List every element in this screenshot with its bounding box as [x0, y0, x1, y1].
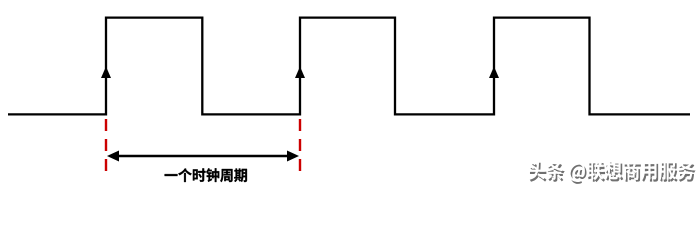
red dashed marker at first rising edge: [105, 119, 107, 172]
clock waveform trace: [8, 18, 690, 115]
rising-edge arrowhead 2: [295, 67, 305, 79]
rising-edge arrowhead 1: [101, 67, 111, 79]
label: 一个时钟周期 (one clock period): [165, 168, 247, 182]
red dashed marker at second rising edge: [299, 119, 301, 172]
clock-period measurement double arrow: [116, 155, 290, 157]
rising-edge arrowhead 3: [489, 67, 499, 79]
